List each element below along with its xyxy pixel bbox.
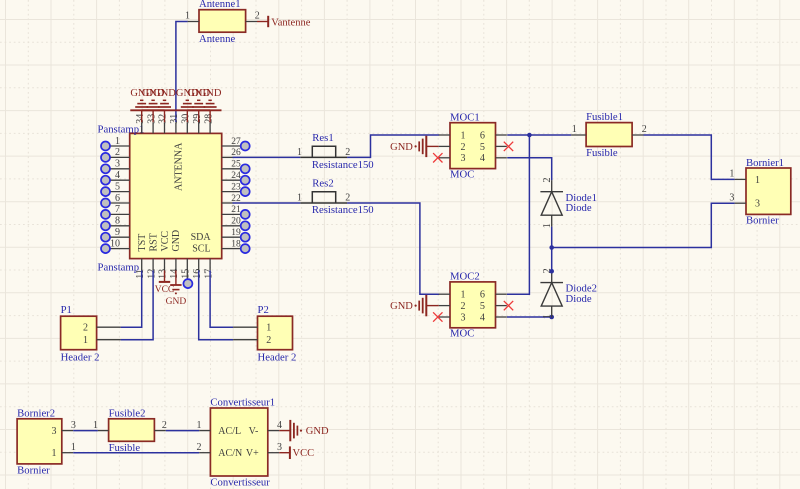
power port GND on pin 28: [199, 88, 222, 122]
optocoupler MOC2 designator: [450, 271, 480, 283]
junction at Diode2 pin 2: [549, 269, 554, 274]
IC internal pin name SCL: [192, 243, 210, 254]
svg-text:P2: P2: [258, 304, 269, 316]
IC internal pin name RST: [148, 233, 159, 251]
svg-text:1: 1: [297, 147, 302, 158]
wire Bornier2 pin 3 to Fusible2 pin 1: [73, 430, 98, 432]
IC pin 19 with pad: [222, 228, 250, 242]
IC pin 18 with pad: [222, 239, 250, 253]
svg-text:2: 2: [162, 420, 167, 431]
svg-text:3: 3: [461, 312, 466, 323]
svg-text:1: 1: [729, 169, 734, 180]
header P1 body: [61, 316, 97, 350]
svg-text:7: 7: [115, 204, 120, 215]
svg-text:GND: GND: [171, 230, 182, 252]
svg-text:1: 1: [115, 136, 120, 147]
IC internal pin name TST: [137, 234, 148, 252]
no-ERC cross MOC1 pin 3: [433, 153, 442, 162]
power port GND on pin 29: [187, 88, 210, 122]
svg-text:21: 21: [231, 205, 241, 215]
terminal Bornier1 body: [746, 168, 791, 214]
IC internal pin name VCC: [160, 231, 171, 252]
svg-text:18: 18: [231, 239, 241, 249]
converter Convertisseur1 body: [210, 408, 267, 476]
IC pin 33 top: [146, 114, 157, 134]
IC pin 14 bottom: [169, 259, 180, 279]
MOC2 pin 3: [439, 312, 466, 323]
svg-text:V-: V-: [249, 426, 259, 437]
svg-text:30: 30: [181, 114, 192, 124]
fuse Fusible2 comment Fusible: [109, 442, 141, 454]
svg-text:4: 4: [115, 170, 120, 181]
svg-text:SCL: SCL: [192, 243, 210, 254]
wire Diode1 pin 1 to junction: [551, 227, 553, 248]
svg-text:4: 4: [480, 153, 485, 164]
power port GND at MOC2 pin 2: [390, 295, 439, 316]
MOC2 pin 5: [480, 301, 507, 312]
svg-text:2: 2: [542, 178, 553, 183]
diode Diode2 comment Diode: [566, 293, 592, 305]
IC pin 31 top: [169, 114, 180, 134]
svg-text:24: 24: [231, 171, 241, 181]
power port GND on pin 14: [166, 270, 187, 306]
svg-text:MOC: MOC: [450, 169, 474, 181]
svg-text:4: 4: [277, 420, 282, 431]
svg-text:11: 11: [135, 269, 146, 279]
svg-text:GND: GND: [306, 426, 329, 437]
header P2 body: [258, 316, 293, 350]
svg-text:Res1: Res1: [312, 132, 333, 144]
antenna Antenne1 designator: [199, 0, 241, 10]
wire Fusible2 pin 2 to Convertisseur1 pin 1: [166, 430, 200, 432]
wire Bornier2 pin 1 to Convertisseur1 pin 2: [73, 452, 199, 454]
IC pin 12 bottom: [146, 259, 157, 279]
IC pin 17 bottom: [203, 259, 214, 279]
MOC2 pin 2: [439, 301, 466, 312]
wire MOC1 pin 6 to Fusible1 pin 1: [507, 134, 571, 136]
IC pin 21 with pad: [222, 205, 250, 219]
svg-text:1: 1: [197, 420, 202, 431]
IC Panstamp1 designator: [98, 124, 145, 136]
svg-text:8: 8: [115, 216, 120, 227]
svg-text:1: 1: [185, 11, 190, 22]
svg-text:15: 15: [181, 269, 192, 279]
IC pin 3 with pad: [101, 159, 130, 174]
IC pin 2 with pad: [101, 147, 130, 162]
svg-text:2: 2: [255, 11, 260, 22]
svg-text:33: 33: [146, 114, 157, 124]
svg-text:V+: V+: [246, 448, 259, 459]
resistor Res1 designator: [312, 132, 333, 144]
IC Panstamp1 comment Panstamp: [98, 261, 140, 273]
IC pin 32 top: [158, 114, 169, 134]
svg-text:3: 3: [461, 153, 466, 164]
IC pin 7 with pad: [101, 204, 130, 219]
junction between diodes: [549, 245, 554, 250]
svg-text:GND: GND: [390, 301, 413, 312]
IC internal pin name GND: [171, 230, 182, 252]
svg-text:Panstamp: Panstamp: [98, 261, 140, 273]
svg-text:1: 1: [266, 323, 271, 334]
svg-text:MOC: MOC: [450, 328, 474, 340]
svg-text:VCC: VCC: [160, 231, 171, 252]
fuse Fusible1 comment Fusible: [586, 147, 618, 159]
svg-text:1: 1: [755, 175, 760, 186]
wire IC pin 22 to Res2 pin 1: [233, 202, 301, 204]
svg-text:VCC: VCC: [293, 448, 315, 459]
diode Diode1 pin 2 number: [542, 178, 553, 183]
svg-text:1: 1: [461, 130, 466, 141]
IC pin 15 bottom: [181, 259, 192, 279]
Res2 pin 2: [345, 193, 350, 204]
pad on IC pin 15: [183, 279, 192, 288]
P1 pin 2: [83, 323, 121, 334]
terminal Bornier2 designator: [17, 407, 55, 419]
wire Fusible1 pin 2 to Bornier1 pin 1: [644, 135, 735, 179]
svg-text:5: 5: [115, 181, 120, 192]
svg-text:3: 3: [755, 199, 760, 210]
MOC1 pin 3: [439, 153, 466, 164]
svg-text:Panstamp1: Panstamp1: [98, 124, 145, 136]
svg-text:1: 1: [572, 124, 577, 135]
terminal Bornier1 designator: [746, 157, 784, 169]
terminal Bornier2 body: [17, 419, 62, 464]
svg-text:1: 1: [93, 420, 98, 431]
svg-text:SDA: SDA: [191, 232, 212, 243]
svg-text:GND: GND: [390, 142, 413, 153]
Fusible2 pin 1: [93, 420, 109, 431]
P2 pin 1: [233, 323, 271, 334]
resistor Res2 body: [300, 192, 347, 203]
svg-text:1: 1: [542, 314, 553, 319]
svg-text:1: 1: [52, 448, 57, 459]
svg-text:Fusible1: Fusible1: [586, 111, 623, 123]
diode Diode2 designator: [566, 283, 597, 295]
Antenne1 pin 2: [246, 11, 260, 22]
svg-text:Bornier: Bornier: [17, 465, 50, 477]
Convertisseur1 pin 3 V+: [246, 442, 282, 459]
optocoupler MOC1 body: [450, 123, 496, 169]
svg-text:2: 2: [83, 323, 88, 334]
svg-text:Bornier1: Bornier1: [746, 157, 784, 169]
wire MOC2 pin 4 to node below Diode2: [507, 316, 552, 318]
power port GND at MOC1 pin 2: [390, 136, 439, 157]
IC pin 29 top: [192, 114, 203, 134]
converter Convertisseur1 comment Convertisseur: [210, 476, 270, 488]
power port VCC at Convertisseur1 pin 3: [279, 446, 314, 459]
IC pin 13 bottom: [158, 259, 169, 279]
svg-text:3: 3: [115, 159, 120, 170]
diode Diode1 designator: [566, 192, 597, 204]
svg-text:Bornier2: Bornier2: [17, 407, 55, 419]
svg-text:13: 13: [158, 269, 169, 279]
svg-text:4: 4: [480, 312, 485, 323]
svg-text:AC/L: AC/L: [218, 426, 241, 437]
MOC1 pin 1: [439, 130, 466, 141]
svg-text:3: 3: [52, 426, 57, 437]
IC pin 8 with pad: [101, 216, 130, 231]
diode Diode1 body: [540, 180, 563, 226]
converter Convertisseur1 designator: [210, 397, 275, 409]
svg-text:3: 3: [277, 442, 282, 453]
svg-text:10: 10: [110, 238, 120, 249]
antenna U-Antenne1 body: [199, 10, 246, 33]
power port GND on pin 32: [153, 88, 176, 122]
wire MOC1 pin 4 to Diode1: [507, 158, 552, 180]
IC internal label ANTENNA: [173, 142, 184, 191]
MOC2 pin 4: [480, 312, 507, 323]
svg-text:Diode: Diode: [566, 202, 592, 214]
antenna Antenne1 comment: [199, 33, 235, 45]
svg-text:Fusible2: Fusible2: [109, 407, 146, 419]
svg-text:ANTENNA: ANTENNA: [173, 142, 184, 191]
power port GND on pin 33: [142, 88, 165, 122]
MOC2 pin 1: [439, 290, 466, 301]
resistor Res1 body: [300, 146, 347, 157]
diode Diode2 pin 2 number: [542, 268, 553, 273]
svg-text:Header 2: Header 2: [258, 351, 297, 363]
svg-text:28: 28: [203, 114, 214, 124]
svg-text:VCC: VCC: [155, 285, 175, 295]
optocoupler MOC1 comment MOC: [450, 169, 474, 181]
power port GND at Convertisseur1 pin 4: [279, 420, 329, 441]
wire Res2 pin 2 to MOC2 pin 1: [347, 203, 439, 294]
diode Diode2 pin 1 number: [542, 314, 553, 319]
svg-text:3: 3: [71, 420, 76, 431]
svg-text:Diode: Diode: [566, 293, 592, 305]
svg-text:Vantenne: Vantenne: [271, 17, 310, 28]
Res2 pin 1: [297, 193, 302, 204]
no-ERC cross MOC2 pin 3: [433, 312, 442, 321]
svg-text:34: 34: [135, 114, 146, 124]
svg-text:MOC2: MOC2: [450, 271, 480, 283]
IC pin 34 top: [135, 114, 146, 134]
svg-text:Resistance150: Resistance150: [312, 204, 374, 216]
svg-text:2: 2: [461, 142, 466, 153]
svg-text:32: 32: [158, 114, 169, 124]
MOC1 pin 6: [480, 130, 507, 141]
IC pin 5 with pad: [101, 181, 130, 196]
Bornier1 pin 3: [729, 192, 760, 209]
svg-text:2: 2: [345, 193, 350, 204]
svg-text:31: 31: [169, 114, 180, 124]
svg-text:Convertisseur: Convertisseur: [210, 476, 270, 488]
svg-text:GND: GND: [166, 297, 187, 307]
IC pin 9 with pad: [101, 227, 130, 242]
svg-text:Res2: Res2: [312, 178, 333, 190]
wire IC pin 26 to Res1 pin 1: [233, 156, 301, 158]
svg-text:6: 6: [480, 130, 485, 141]
junction below Diode2: [549, 315, 554, 320]
svg-text:6: 6: [115, 193, 120, 204]
svg-text:25: 25: [231, 160, 241, 170]
Convertisseur1 pin 2 AC/N: [197, 442, 243, 459]
svg-text:Bornier: Bornier: [746, 215, 779, 227]
fuse Fusible1 body: [586, 123, 632, 147]
diode Diode1 comment Diode: [566, 202, 592, 214]
terminal Bornier2 comment Bornier: [17, 465, 50, 477]
svg-text:Fusible: Fusible: [586, 147, 618, 159]
svg-text:2: 2: [197, 442, 202, 453]
fuse Fusible1 designator: [586, 111, 623, 123]
svg-text:1: 1: [297, 193, 302, 204]
optocoupler MOC2 body: [450, 282, 496, 328]
power port GND on pin 30: [176, 88, 199, 122]
MOC2 pin 6: [480, 290, 507, 301]
wire antenna pin1 to IC pin 31: [176, 22, 188, 123]
svg-text:12: 12: [146, 269, 157, 279]
svg-text:27: 27: [231, 137, 241, 147]
svg-text:Convertisseur1: Convertisseur1: [210, 397, 275, 409]
svg-text:Fusible: Fusible: [109, 442, 141, 454]
header P2 comment Header 2: [258, 351, 297, 363]
resistor Res1 comment Resistance150: [312, 159, 374, 171]
IC pin 4 with pad: [101, 170, 130, 185]
Bornier1 pin 1: [729, 169, 760, 186]
svg-text:5: 5: [480, 142, 485, 153]
IC pin 22: [222, 194, 241, 204]
IC pin 20 with pad: [222, 217, 250, 231]
Fusible1 pin 1: [571, 124, 586, 135]
svg-text:Header 2: Header 2: [61, 351, 100, 363]
svg-text:2: 2: [642, 124, 647, 135]
svg-text:Resistance150: Resistance150: [312, 159, 374, 171]
header P2 designator: [258, 304, 269, 316]
wire Res1 pin 2 to MOC1 pin 1: [347, 135, 439, 157]
IC pin 25 with pad: [222, 160, 250, 174]
IC pin 10 with pad: [101, 238, 130, 253]
IC pin 28 top: [203, 114, 214, 134]
no-ERC cross MOC2 pin 5: [504, 301, 513, 310]
diode Diode2 body: [540, 271, 563, 317]
svg-text:2: 2: [345, 147, 350, 158]
svg-text:Antenne1: Antenne1: [199, 0, 241, 10]
IC internal pin name SDA: [191, 232, 212, 243]
IC pin 11 bottom: [135, 259, 146, 279]
MOC1 pin 4: [480, 153, 507, 164]
wire junction down to MOC2 pin 6: [507, 135, 529, 294]
fuse Fusible2 designator: [109, 407, 146, 419]
svg-text:14: 14: [169, 269, 180, 279]
IC pin 27 with pad: [222, 137, 250, 151]
diode Diode1 pin 1 number: [542, 223, 553, 228]
IC pin 26: [222, 148, 241, 158]
IC pin 1 with pad: [101, 136, 130, 151]
wire IC pin 12 to P1 pin 1: [121, 270, 154, 339]
wire diode junction to Bornier1 pin 3: [552, 203, 735, 247]
svg-text:GND: GND: [199, 88, 222, 99]
power port Vantenne: [257, 16, 311, 28]
svg-text:TST: TST: [137, 234, 148, 252]
svg-text:Antenne: Antenne: [199, 33, 235, 45]
svg-text:1: 1: [461, 290, 466, 301]
power port GND on pin 34: [130, 88, 153, 122]
IC pin 30 top: [181, 114, 192, 134]
Bornier2 pin 1: [52, 442, 76, 459]
wire junction to Diode2 pin 2: [551, 248, 553, 272]
svg-text:29: 29: [192, 114, 203, 124]
wire IC pin 11 to P1 pin 2: [121, 270, 142, 327]
Fusible1 pin 2: [632, 124, 647, 135]
IC pin 24 with pad: [222, 171, 250, 185]
IC pin 6 with pad: [101, 193, 130, 208]
Bornier2 pin 3: [52, 420, 76, 437]
no-ERC cross MOC1 pin 5: [504, 142, 513, 151]
svg-text:1: 1: [83, 335, 88, 346]
Convertisseur1 pin 1 AC/L: [197, 420, 242, 437]
IC pin 23 with pad: [222, 182, 250, 196]
resistor Res2 designator: [312, 178, 333, 190]
MOC1 pin 2: [439, 142, 466, 153]
wire IC pin 17 to P2 pin 1: [210, 270, 233, 327]
svg-text:P1: P1: [61, 304, 72, 316]
power port VCC on pin 13: [155, 270, 175, 295]
svg-text:MOC1: MOC1: [450, 112, 480, 124]
svg-text:2: 2: [115, 147, 120, 158]
optocoupler MOC2 comment MOC: [450, 328, 474, 340]
svg-text:3: 3: [729, 192, 734, 203]
Antenne1 pin 1: [185, 11, 199, 22]
svg-text:2: 2: [266, 335, 271, 346]
resistor Res2 comment Resistance150: [312, 204, 374, 216]
MOC1 pin 5: [480, 142, 507, 153]
svg-text:6: 6: [480, 290, 485, 301]
wire IC pin 16 to P2 pin 2: [199, 270, 233, 339]
P2 pin 2: [233, 335, 271, 346]
header P1 designator: [61, 304, 72, 316]
svg-text:17: 17: [203, 269, 214, 279]
Res1 pin 2: [345, 147, 350, 158]
Fusible2 pin 2: [154, 420, 167, 431]
svg-text:9: 9: [115, 227, 120, 238]
svg-text:23: 23: [231, 182, 241, 192]
IC Panstamp1 body: [130, 133, 222, 258]
fuse Fusible2 body: [109, 419, 155, 442]
svg-text:RST: RST: [148, 233, 159, 251]
svg-text:AC/N: AC/N: [218, 448, 242, 459]
svg-text:20: 20: [231, 217, 241, 227]
optocoupler MOC1 designator: [450, 112, 480, 124]
svg-text:19: 19: [231, 228, 241, 238]
junction at MOC1 pin 6 branch: [527, 133, 532, 138]
P1 pin 1: [83, 335, 121, 346]
IC pin 16 bottom: [192, 259, 203, 279]
svg-text:1: 1: [71, 442, 76, 453]
svg-text:16: 16: [192, 269, 203, 279]
svg-text:GND: GND: [153, 88, 176, 99]
Res1 pin 1: [297, 147, 302, 158]
terminal Bornier1 comment Bornier: [746, 215, 779, 227]
Convertisseur1 pin 4 V-: [249, 420, 282, 437]
header P1 comment Header 2: [61, 351, 100, 363]
svg-text:5: 5: [480, 301, 485, 312]
svg-text:2: 2: [461, 301, 466, 312]
